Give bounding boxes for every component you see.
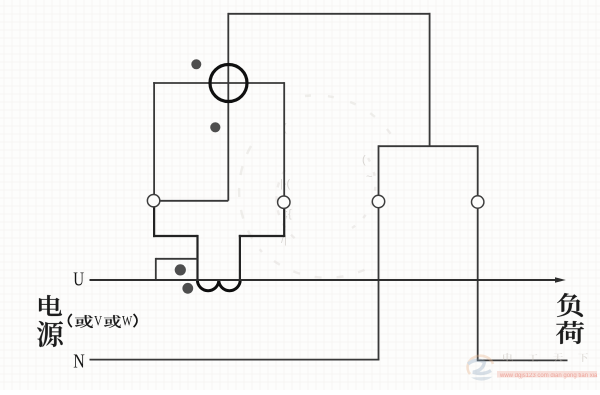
svg-text:U: U xyxy=(73,268,84,290)
svg-text:N: N xyxy=(73,350,85,372)
junction dot D xyxy=(182,283,193,294)
watermark text 电工天下 xyxy=(503,353,588,362)
label: source 电 xyxy=(39,295,62,316)
wire: top horizontal xyxy=(228,13,430,15)
wire: top right vertical xyxy=(429,13,431,146)
svg-text:(: ( xyxy=(362,154,366,166)
wire: connector horizontal between terminals 3 and 4 xyxy=(379,145,478,147)
wire: inner rect left edge xyxy=(153,82,155,196)
svg-text:|-(: |-( xyxy=(280,178,291,190)
voltage coil (big circle) xyxy=(210,65,247,102)
terminal 2 xyxy=(278,196,290,208)
wire: inner rect top edge xyxy=(153,82,284,84)
wire: link top edge xyxy=(156,258,198,260)
wire: link left edge xyxy=(155,258,157,280)
svg-text:V: V xyxy=(94,314,102,330)
arrowhead to load xyxy=(555,277,566,283)
wire: terminal 3 vertical upper xyxy=(378,145,380,195)
wire: current coil vertical right xyxy=(239,235,241,280)
label: load 负 xyxy=(557,293,583,317)
terminal 1 xyxy=(147,195,159,207)
wire: current coil vertical left down to U xyxy=(196,235,198,280)
wire: horizontal from terminal 1 to voltage-coil xyxy=(154,200,229,202)
wire: current coil horizontal left xyxy=(153,235,198,237)
label: load 荷 xyxy=(556,321,584,344)
svg-text:;{: ;{ xyxy=(285,208,292,220)
wire: terminal 4 vertical lower to N xyxy=(477,208,479,360)
junction dot B xyxy=(210,122,220,132)
junction dot A xyxy=(191,59,201,69)
wire: current coil horizontal right xyxy=(239,235,284,237)
watermark vertical text fragments xyxy=(280,122,372,246)
svg-text:W: W xyxy=(122,314,133,330)
terminal 3 xyxy=(372,195,384,207)
terminal 4 xyxy=(472,196,484,208)
watermark stamp arcs (faint) xyxy=(239,95,398,277)
label: source 源 xyxy=(37,321,63,347)
wire: U phase line xyxy=(90,279,557,281)
wire: inner rect right edge xyxy=(283,82,285,197)
junction dot C xyxy=(175,264,186,275)
svg-text:www dgjs123 com dian gong tian: www dgjs123 com dian gong tian xia xyxy=(499,373,598,379)
current coil humps xyxy=(197,280,240,291)
wire: N line left xyxy=(90,359,380,361)
label: (或V或W) xyxy=(68,314,71,327)
wire: terminal 3 vertical lower to N xyxy=(378,208,380,360)
watermark logo swirl xyxy=(468,356,493,381)
wire: N line right xyxy=(477,359,568,361)
svg-text:~: ~ xyxy=(366,171,372,183)
wire: terminal 4 vertical upper xyxy=(477,145,479,196)
wire: current coil lead from terminal 1 xyxy=(153,207,155,237)
watermark red bar xyxy=(497,371,597,378)
wire: current coil lead to terminal 2 xyxy=(283,208,285,237)
wire: voltage-coil vertical through circle xyxy=(227,13,229,201)
